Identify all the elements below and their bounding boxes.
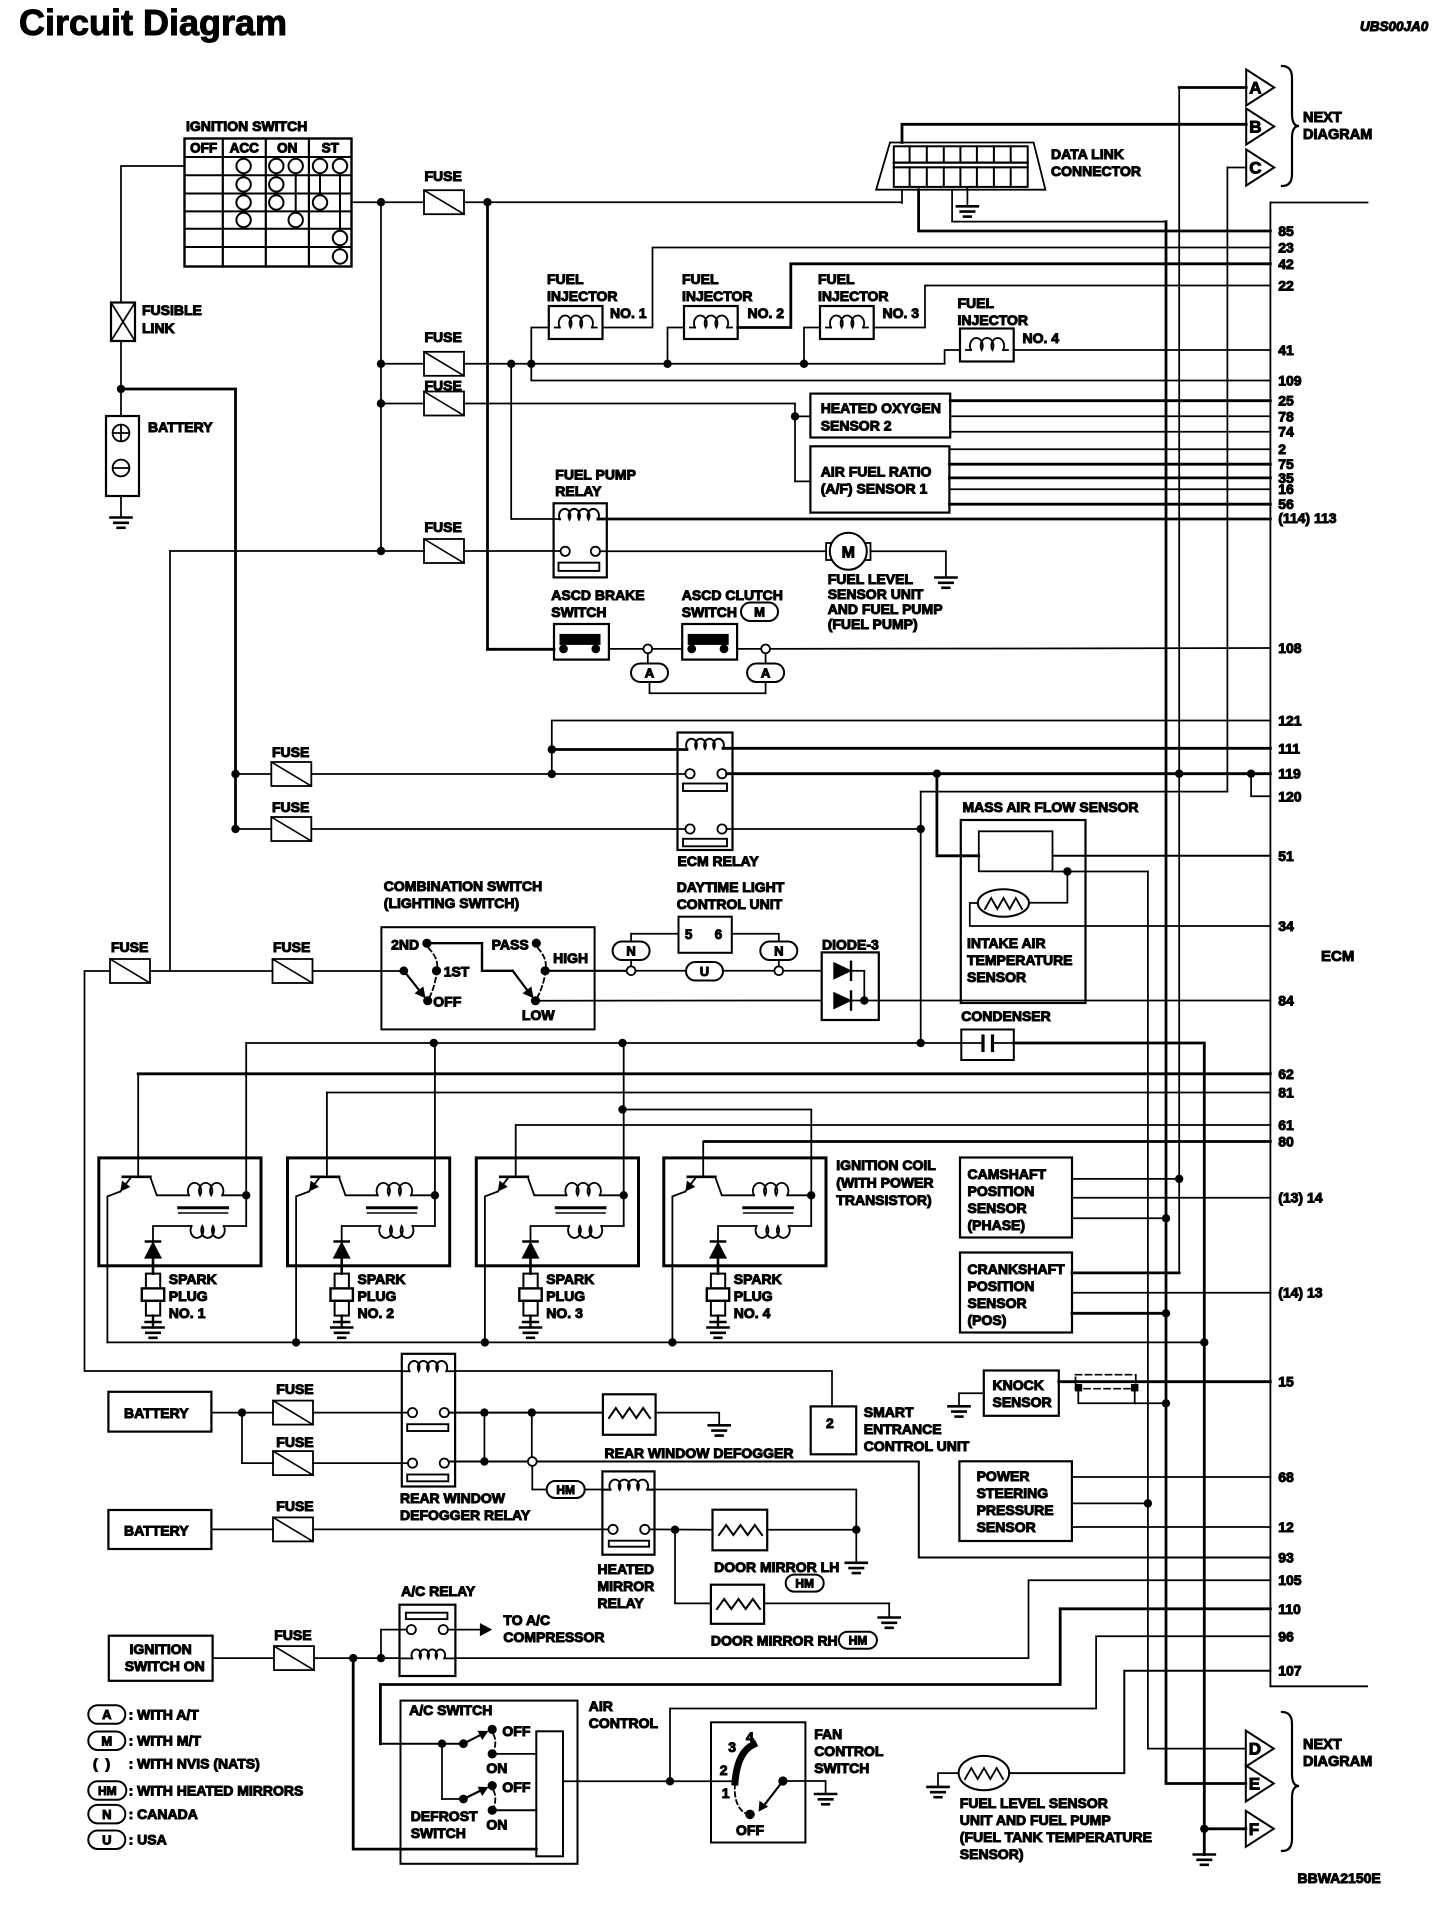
node: coil power junction [242, 1191, 250, 1199]
svg-text:PASS: PASS [492, 936, 529, 952]
wire: knock sensor ground lead [959, 1393, 984, 1406]
ground: fuel tank sensor [928, 1786, 949, 1789]
svg-text:85: 85 [1278, 223, 1294, 239]
ECM relay [678, 733, 760, 870]
svg-text:INJECTOR: INJECTOR [818, 288, 889, 304]
svg-text:RELAY: RELAY [598, 1595, 645, 1611]
svg-text:SENSOR): SENSOR) [960, 1846, 1024, 1862]
node [791, 412, 799, 420]
wire: HO2S2 to ECM 74 [950, 431, 1270, 433]
svg-text:FUSE: FUSE [272, 799, 309, 815]
svg-text:HM: HM [849, 1634, 868, 1648]
svg-text:NO. 1: NO. 1 [169, 1305, 206, 1321]
wire: defrost on output [492, 1809, 536, 1811]
node [548, 745, 556, 753]
svg-text:ON: ON [277, 141, 297, 156]
D net riser (IAT signal) [1148, 872, 1246, 1749]
svg-text:A/C RELAY: A/C RELAY [401, 1583, 476, 1599]
svg-text:KNOCK: KNOCK [993, 1377, 1044, 1393]
wire: fan switch to ground [783, 1781, 826, 1794]
data link connector [876, 143, 1141, 190]
svg-text:68: 68 [1278, 1469, 1294, 1485]
svg-text:96: 96 [1278, 1628, 1294, 1644]
ignition switch table [185, 139, 352, 267]
node [483, 198, 491, 206]
diode (in coil unit 3) [522, 1242, 538, 1274]
svg-text:FUEL: FUEL [958, 295, 995, 311]
A/C switch box [401, 1701, 578, 1864]
wire: LOW output to diode-3 [536, 1000, 822, 1002]
svg-text:119: 119 [1278, 766, 1301, 782]
svg-text:2: 2 [720, 1762, 728, 1778]
ground bus tail [1203, 1342, 1206, 1854]
wire: connector ground stem [966, 187, 968, 206]
svg-text:FUEL: FUEL [682, 271, 719, 287]
wire: PS mid pin to D net [1072, 1502, 1148, 1504]
svg-text:AND FUEL PUMP: AND FUEL PUMP [828, 601, 943, 617]
svg-text:DATA LINK: DATA LINK [1051, 146, 1124, 162]
svg-text:FUSE: FUSE [425, 168, 462, 184]
node: coil power junction [807, 1191, 815, 1199]
svg-text:FUEL: FUEL [547, 271, 584, 287]
wire: connector pin to E bus [952, 190, 1166, 222]
svg-text:CONTROL: CONTROL [589, 1715, 659, 1731]
svg-text:INJECTOR: INJECTOR [547, 288, 618, 304]
wire [211, 1528, 273, 1530]
ignition coil unit 4 (with power transistor) [664, 1142, 826, 1343]
ground: spark plug 4 [708, 1326, 729, 1329]
svg-text:NO. 2: NO. 2 [358, 1305, 395, 1321]
svg-text:FUSE: FUSE [272, 744, 309, 760]
fuel tank temperature sensor element [959, 1756, 1010, 1790]
wire: feed to ASCD brake switch [488, 648, 555, 651]
wire: A/C on output [492, 1753, 536, 1755]
node [528, 1408, 536, 1416]
svg-text:CONTROL: CONTROL [814, 1743, 884, 1759]
svg-text:1: 1 [722, 1785, 730, 1801]
svg-text:16: 16 [1278, 481, 1294, 497]
svg-text:A: A [761, 665, 771, 680]
lighting switch left section [391, 936, 513, 1009]
wire: C triangle feed [1227, 167, 1246, 169]
ground: fuel pump [935, 576, 956, 579]
svg-text:NEXT: NEXT [1303, 110, 1342, 126]
svg-text:111: 111 [1278, 740, 1300, 756]
rear window defogger relay [400, 1354, 531, 1523]
node [1144, 1499, 1152, 1507]
wire: pin 120 stub [1251, 774, 1270, 797]
ground: main [1194, 1853, 1215, 1856]
svg-text:SPARK: SPARK [734, 1271, 782, 1287]
wire: pin5 to N [631, 934, 678, 942]
wire: ECM relay lower contact output [727, 828, 921, 830]
wire: air control output to fan switch [563, 1780, 734, 1782]
intake air temperature sensor element [978, 889, 1029, 917]
fuel pump relay [554, 467, 636, 578]
svg-text:DEFOGGER RELAY: DEFOGGER RELAY [400, 1507, 531, 1523]
svg-text:A: A [645, 665, 655, 680]
connector triangle D [1246, 1731, 1274, 1767]
wire: RH branch [675, 1530, 711, 1604]
wire: HO2S2 left pin [795, 415, 810, 417]
svg-text:PLUG: PLUG [358, 1288, 397, 1304]
svg-text:STEERING: STEERING [977, 1485, 1049, 1501]
svg-text:SENSOR: SENSOR [967, 969, 1026, 985]
svg-text:121: 121 [1278, 713, 1302, 729]
svg-text:IGNITION SWITCH: IGNITION SWITCH [186, 118, 307, 134]
svg-text:22: 22 [1278, 278, 1294, 294]
A/C relay [400, 1583, 476, 1676]
svg-text:REAR WINDOW: REAR WINDOW [400, 1490, 506, 1506]
svg-text:74: 74 [1278, 424, 1294, 440]
svg-text:109: 109 [1278, 373, 1302, 389]
svg-text:41: 41 [1278, 342, 1294, 358]
svg-text:CONNECTOR: CONNECTOR [1051, 163, 1141, 179]
svg-text:A: A [102, 1707, 112, 1722]
node [377, 360, 385, 368]
wire: F9 to defogger relay contact [313, 1412, 408, 1414]
svg-text:6: 6 [715, 927, 723, 942]
svg-text:15: 15 [1278, 1374, 1294, 1390]
ignition switch on source [109, 1636, 213, 1681]
svg-text:U: U [700, 964, 709, 979]
wire: MAF internal bottom [1053, 871, 1148, 873]
wire: condenser to ground bus [1014, 1043, 1205, 1342]
node [666, 1777, 674, 1785]
svg-text:ON: ON [486, 1760, 507, 1776]
wire: ECM relay coil to ECM 111 [723, 747, 1270, 750]
svg-text:NO. 4: NO. 4 [1023, 330, 1060, 346]
node [292, 1338, 300, 1346]
node [480, 1457, 488, 1465]
svg-text:DOOR MIRROR LH: DOOR MIRROR LH [714, 1559, 839, 1575]
wire: AF sensor to ECM 16 [949, 488, 1270, 490]
svg-text:REAR WINDOW DEFOGGER: REAR WINDOW DEFOGGER [605, 1445, 794, 1461]
wire [585, 1489, 611, 1491]
wire: cam pin3 [1072, 1217, 1166, 1219]
svg-text:51: 51 [1278, 848, 1294, 864]
svg-text:CONTROL UNIT: CONTROL UNIT [864, 1438, 970, 1454]
svg-text:FUSE: FUSE [276, 1434, 313, 1450]
wire: sensor to ground [938, 1773, 959, 1787]
node [1162, 1309, 1170, 1317]
svg-text:OFF: OFF [736, 1822, 764, 1838]
wire: injector 3 to ECM 22 [874, 286, 1271, 328]
fuel injector NO. 1 [547, 271, 647, 339]
svg-text:M: M [754, 604, 765, 619]
wire [380, 1743, 463, 1745]
fuel pump motor M [826, 533, 870, 570]
svg-text:FAN: FAN [814, 1726, 842, 1742]
svg-text:FUSE: FUSE [276, 1381, 313, 1397]
svg-text:110: 110 [1278, 1601, 1301, 1617]
wire: HO2S2 to ECM 78 [950, 415, 1270, 417]
svg-text:IGNITION: IGNITION [130, 1641, 192, 1657]
wire: fuse F2 feed [381, 363, 424, 365]
ground: battery [111, 516, 132, 519]
spark plug NO. 4 [707, 1271, 782, 1328]
ground: spark plug 1 [143, 1326, 164, 1329]
wire: PS to ECM 12 [1072, 1526, 1271, 1528]
legend [88, 1705, 303, 1849]
svg-text:ENTRANCE: ENTRANCE [864, 1421, 942, 1437]
svg-text:12: 12 [1278, 1519, 1294, 1535]
wire: bus to F5 [236, 773, 272, 775]
svg-text:2: 2 [826, 1415, 834, 1431]
wire: F feed with ground [1204, 1827, 1246, 1830]
svg-text:SENSOR: SENSOR [968, 1295, 1027, 1311]
A/C switch contacts [459, 1723, 531, 1776]
wire: to A/C compressor [448, 1629, 479, 1631]
svg-text:N: N [102, 1807, 111, 1822]
svg-text:CONDENSER: CONDENSER [961, 1008, 1050, 1024]
svg-text:23: 23 [1278, 240, 1294, 256]
svg-text:81: 81 [1278, 1085, 1294, 1101]
ECM pin number labels [1278, 223, 1337, 1679]
node: coil power junction [431, 1191, 439, 1199]
fuel injector NO. 2 [682, 271, 784, 339]
node (open) [761, 645, 770, 654]
node [377, 1654, 385, 1662]
svg-text:SWITCH: SWITCH [814, 1760, 869, 1776]
svg-text:SWITCH: SWITCH [682, 604, 737, 620]
ASCD clutch switch [682, 587, 783, 660]
wire: power rail drop [623, 1043, 625, 1226]
wire: bus to F6 [236, 828, 272, 830]
svg-text:FUSE: FUSE [111, 939, 148, 955]
wire: ignition switch feed from fusible link [121, 166, 185, 303]
air fuel ratio sensor 1 [810, 446, 949, 512]
svg-text:42: 42 [1278, 256, 1294, 272]
wire: coil trigger ECM 81 [327, 1092, 1270, 1094]
wire: RH to ground [764, 1603, 889, 1617]
svg-text:SENSOR: SENSOR [993, 1394, 1052, 1410]
svg-text:DIAGRAM: DIAGRAM [1303, 127, 1372, 143]
svg-text:ON: ON [486, 1817, 507, 1833]
wire: motor to ground [871, 551, 946, 577]
wire: AF sensor to ECM 56 [949, 503, 1270, 506]
node [507, 360, 515, 368]
wire: pin 110 to A/C switch [380, 1609, 1270, 1744]
node [1247, 770, 1255, 778]
svg-text:SWITCH: SWITCH [551, 604, 606, 620]
svg-text:BATTERY: BATTERY [124, 1523, 189, 1539]
badge A (with A/T) 2 [747, 663, 784, 682]
ECM boundary [1270, 203, 1367, 1687]
svg-text:OFF: OFF [502, 1779, 530, 1795]
wire: A triangle feed [1179, 86, 1246, 89]
wire: cam pin2 to ECM (13)14 [1072, 1197, 1270, 1199]
svg-text:INJECTOR: INJECTOR [682, 288, 753, 304]
svg-text:DAYTIME LIGHT: DAYTIME LIGHT [677, 879, 785, 895]
svg-text:TEMPERATURE: TEMPERATURE [967, 952, 1073, 968]
svg-text:AIR: AIR [589, 1698, 613, 1714]
spark plug NO. 3 [519, 1271, 594, 1328]
connector triangle F [1246, 1811, 1274, 1847]
lighting switch right section [492, 936, 588, 1023]
wire: heated mirror relay coil to LH ground [647, 1490, 856, 1530]
svg-text:BATTERY: BATTERY [124, 1405, 189, 1421]
wire: LH to ground [767, 1529, 856, 1531]
badge HM (with heated mirrors) [547, 1481, 585, 1498]
diode (in coil unit 2) [334, 1242, 350, 1274]
svg-text:PLUG: PLUG [169, 1288, 208, 1304]
svg-text:HEATED OXYGEN: HEATED OXYGEN [821, 400, 941, 416]
daytime light control unit [679, 917, 732, 953]
wire: MAF to ECM 51 [1053, 855, 1271, 857]
svg-text:COMPRESSOR: COMPRESSOR [503, 1629, 604, 1645]
wire: injector 2 left pin [668, 328, 685, 364]
wire: coil4 power branch [623, 1110, 812, 1196]
node [377, 547, 385, 555]
wire: ECM relay coil feed [552, 748, 687, 751]
svg-text:LINK: LINK [142, 320, 175, 336]
svg-text:OFF: OFF [433, 994, 461, 1010]
svg-text:(PHASE): (PHASE) [968, 1217, 1026, 1233]
smart entrance control unit [811, 1404, 970, 1454]
svg-text:C: C [1249, 159, 1261, 178]
label intake air temperature sensor [967, 935, 1073, 985]
node [231, 825, 239, 833]
air control unit bar [536, 1731, 563, 1856]
wire: feed to smart entrance branch [85, 971, 402, 1371]
svg-text:: CANADA: : CANADA [129, 1806, 198, 1822]
wire [242, 1462, 273, 1464]
wire: crank pin3 [1072, 1312, 1166, 1315]
diode (in coil unit 4) [710, 1242, 726, 1274]
svg-text:2ND: 2ND [391, 936, 419, 952]
wire: bridge [483, 1413, 485, 1462]
wire: defogger element to ground [656, 1413, 720, 1426]
svg-text:ASCD CLUTCH: ASCD CLUTCH [682, 587, 783, 603]
svg-text:FUEL LEVEL SENSOR: FUEL LEVEL SENSOR [960, 1795, 1108, 1811]
badge U (USA) on line [636, 970, 687, 972]
svg-text:1ST: 1ST [444, 964, 470, 980]
camshaft position sensor (phase) [960, 1158, 1072, 1238]
svg-text:POSITION: POSITION [968, 1183, 1035, 1199]
node: coil power junction [620, 1191, 628, 1199]
svg-text:SENSOR: SENSOR [968, 1200, 1027, 1216]
svg-text:PRESSURE: PRESSURE [977, 1502, 1054, 1518]
node [1175, 1175, 1183, 1183]
door mirror RH [711, 1585, 838, 1649]
label fuel level sensor unit [828, 571, 943, 632]
svg-text:: WITH M/T: : WITH M/T [129, 1733, 202, 1749]
svg-text:TRANSISTOR): TRANSISTOR) [836, 1192, 931, 1208]
wire: fan feedback to ECM 96 [670, 1636, 1270, 1781]
wire: drop to F10 [241, 1413, 243, 1464]
wire: defogger relay coil to smart entrance [455, 1371, 832, 1406]
wire: connector pin to ignition feed [901, 190, 903, 203]
fuel injector NO. 3 [818, 271, 919, 339]
svg-text:NO. 1: NO. 1 [610, 305, 647, 321]
wire: pin 109 branch [531, 364, 1270, 381]
wire [723, 970, 775, 972]
node [548, 770, 556, 778]
svg-text:(LIGHTING SWITCH): (LIGHTING SWITCH) [384, 895, 519, 911]
svg-text:A/C SWITCH: A/C SWITCH [409, 1702, 492, 1718]
wire: A/C relay contact feed [381, 1630, 407, 1659]
wire: lighting circuit feed [150, 970, 273, 972]
wire: IAT right pin [1029, 872, 1067, 903]
svg-text:120: 120 [1278, 788, 1302, 804]
svg-text:SENSOR 2: SENSOR 2 [821, 418, 892, 434]
svg-text:: WITH HEATED MIRRORS: : WITH HEATED MIRRORS [129, 1783, 304, 1799]
ASCD brake switch [551, 587, 644, 660]
A net riser [1178, 88, 1180, 1273]
svg-text:F: F [1249, 1820, 1259, 1839]
spark plug NO. 1 [142, 1271, 217, 1328]
wire: injector supply rail [464, 350, 960, 364]
wire: F6 to ECM relay lower contact [311, 828, 685, 830]
svg-text:POWER: POWER [977, 1468, 1030, 1484]
svg-text:ECM RELAY: ECM RELAY [678, 853, 760, 869]
svg-text:Circuit Diagram: Circuit Diagram [19, 2, 287, 43]
wire: defrost rail [353, 1658, 536, 1849]
svg-text:DIODE-3: DIODE-3 [822, 937, 879, 953]
node [917, 1039, 925, 1047]
svg-text:RELAY: RELAY [555, 483, 602, 499]
svg-text:PLUG: PLUG [546, 1288, 585, 1304]
svg-text:M: M [842, 544, 855, 561]
svg-text:(FUEL PUMP): (FUEL PUMP) [828, 616, 918, 632]
wire: fuel pump relay coil to ECM (114)113 [598, 518, 1270, 521]
wire: coil trigger ECM 62 [138, 1072, 1270, 1075]
svg-text:HM: HM [795, 1576, 814, 1590]
connector triangle B [1246, 109, 1274, 145]
svg-text:(FUEL TANK TEMPERATURE: (FUEL TANK TEMPERATURE [960, 1829, 1152, 1845]
rear window defogger element [603, 1394, 794, 1461]
fan control switch [711, 1722, 884, 1842]
svg-text:COMBINATION SWITCH: COMBINATION SWITCH [384, 878, 542, 894]
node [800, 360, 808, 368]
wire: defogger relay contact output [449, 1412, 603, 1414]
wire: crank pin2 to ECM (14)13 [1072, 1292, 1270, 1294]
svg-text:SPARK: SPARK [546, 1271, 594, 1287]
node (open) [774, 966, 783, 975]
svg-text:SWITCH ON: SWITCH ON [125, 1658, 205, 1674]
wire: AF sensor left pin [795, 480, 810, 482]
node (open) [627, 966, 636, 975]
svg-text:SENSOR UNIT: SENSOR UNIT [828, 586, 924, 602]
svg-text:DOOR MIRROR RH: DOOR MIRROR RH [711, 1633, 838, 1649]
svg-text:CAMSHAFT: CAMSHAFT [968, 1166, 1047, 1182]
wire: connector to ECM 85 [919, 190, 1271, 231]
node [1175, 770, 1183, 778]
ignition coil unit 2 (with power transistor) [288, 1093, 450, 1343]
wire: connector to B triangle [902, 124, 1246, 142]
stem [630, 960, 632, 966]
svg-text:2: 2 [1278, 441, 1286, 457]
node (open) [643, 645, 652, 654]
heated oxygen sensor 2 [810, 394, 950, 438]
wire: battery to ground [120, 496, 122, 518]
wire: coil trigger ECM 61 [516, 1124, 1271, 1126]
svg-text:POSITION: POSITION [968, 1278, 1035, 1294]
svg-text:B: B [1249, 118, 1261, 137]
svg-text:62: 62 [1278, 1066, 1294, 1082]
node [377, 198, 385, 206]
wire: HIGH output [545, 970, 626, 972]
label fuel level sensor unit (tank) [960, 1795, 1152, 1862]
vertical feed x487.5 (thick) [486, 202, 489, 649]
wire: pin6 to N2 [732, 934, 779, 942]
badge HM [786, 1575, 824, 1592]
knock sensor [984, 1371, 1059, 1416]
node [933, 770, 941, 778]
ignition coil unit 3 (with power transistor) [476, 1125, 638, 1342]
ground: fan switch [815, 1793, 836, 1796]
